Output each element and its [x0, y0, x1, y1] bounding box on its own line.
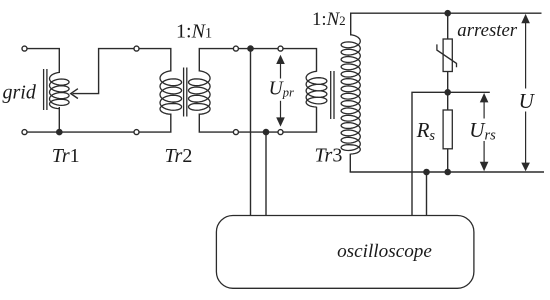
junction scope tap bottom — [263, 129, 270, 136]
terminal Tr2 output bottom — [233, 130, 238, 135]
wire Urs top reference — [448, 91, 490, 93]
junction Tr1 bottom — [56, 129, 63, 136]
wire measuring tap to scope lead 3 — [412, 92, 448, 215]
terminal grid input bottom — [22, 130, 27, 135]
autotransformer Tr1 winding — [50, 72, 70, 108]
wire scope lead 1 — [250, 49, 252, 216]
junction arrester top — [444, 10, 451, 17]
transformer Tr2 secondary winding — [189, 71, 211, 114]
svg-text:Urs: Urs — [469, 118, 496, 143]
terminal grid input top — [22, 46, 27, 51]
terminal Upr bottom — [278, 130, 283, 135]
terminal Tr2 output top — [233, 46, 238, 51]
svg-text:1:N2: 1:N2 — [312, 9, 346, 30]
terminal Tr1 output top — [134, 46, 139, 51]
core of Tr1 — [44, 69, 47, 110]
wire Tr2 secondary top — [199, 49, 233, 72]
voltage arrow U — [521, 14, 530, 171]
svg-text:Upr: Upr — [269, 78, 294, 99]
wire Upr node to Tr3 primary top — [283, 49, 316, 72]
wire Tr3 secondary top rail — [351, 13, 542, 35]
wire grid top to Tr1 winding — [27, 49, 59, 73]
junction arrester / Rs — [444, 89, 451, 96]
wire Tr3 secondary bottom lead — [349, 154, 351, 172]
voltage arrow Urs — [480, 93, 489, 171]
core of Tr2 — [184, 68, 187, 117]
svg-text:Tr1: Tr1 — [52, 145, 80, 167]
wire bottom rail — [350, 171, 544, 173]
wire grid bottom — [27, 131, 134, 133]
svg-text:1:N1: 1:N1 — [176, 21, 212, 43]
core of Tr3 — [331, 71, 334, 119]
svg-text:U: U — [519, 89, 536, 113]
resistor Rs — [443, 92, 452, 172]
wire Upr node to Tr3 primary bottom — [283, 107, 316, 132]
wire Tr2 secondary bottom — [199, 114, 233, 133]
svg-text:grid: grid — [3, 81, 37, 103]
svg-text:Tr3: Tr3 — [315, 145, 343, 167]
surge arrester FV — [437, 13, 457, 92]
wire scope lead 2 — [265, 132, 267, 215]
Tr1 wiper arrow — [71, 49, 134, 99]
wire Tr2 to Upr node top — [239, 48, 278, 50]
terminal Upr top — [278, 46, 283, 51]
junction Rs bottom — [444, 169, 451, 176]
wire Tr2 to Upr node bottom — [239, 131, 278, 133]
junction scope tap top — [247, 45, 254, 52]
transformer Tr3 secondary winding — [341, 35, 360, 154]
transformer Tr2 primary winding — [160, 71, 182, 114]
wire Tr1 to Tr2 primary top — [139, 49, 171, 72]
svg-text:oscilloscope: oscilloscope — [337, 241, 432, 262]
svg-text:Rs: Rs — [416, 118, 436, 144]
wire Tr1 winding bottom lead — [58, 107, 60, 132]
svg-text:Tr2: Tr2 — [165, 145, 193, 167]
wire scope lead 4 — [426, 172, 428, 216]
junction scope tap bottom rail — [423, 169, 430, 176]
transformer Tr3 primary winding — [306, 71, 327, 107]
wire Tr1 to Tr2 primary bottom — [139, 114, 171, 133]
terminal Tr1 output bottom — [134, 130, 139, 135]
svg-text:arrester: arrester — [457, 20, 518, 41]
oscilloscope box — [216, 216, 474, 289]
voltage arrow Upr — [276, 55, 285, 127]
